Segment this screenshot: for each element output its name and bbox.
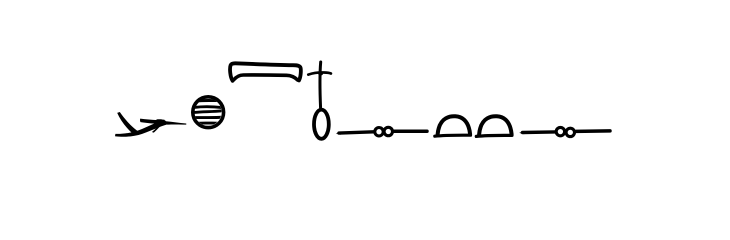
hatch lines — [194, 100, 223, 123]
bird body swoosh — [115, 120, 166, 137]
bird body blob and tail stroke — [156, 119, 187, 125]
basket rim outline — [230, 63, 301, 81]
wire 1 with double loop — [336, 127, 427, 136]
wire 2 with double loop — [519, 127, 610, 136]
wire 2 left segment — [523, 130, 556, 134]
circle outline — [193, 97, 224, 128]
wire 1 left segment — [339, 132, 374, 133]
dome 2 arch — [479, 116, 512, 134]
wire 2 right segment — [576, 129, 610, 133]
nefer crossbar — [308, 72, 331, 74]
nefer glyph (cross-topped oval) — [308, 62, 331, 139]
wire 1 loop a — [375, 128, 383, 136]
nefer oval — [314, 110, 329, 139]
bird leg stroke — [152, 124, 162, 133]
wire 1 right segment — [394, 129, 427, 133]
basket glyph — [230, 63, 301, 81]
basket bottom line — [234, 75, 298, 80]
hatched circle glyph — [193, 97, 224, 128]
bird left wing stroke — [117, 112, 137, 134]
dome 2 base — [476, 135, 512, 136]
nefer vertical stem — [319, 62, 323, 109]
wire 1 loop b — [384, 127, 392, 135]
dome 1 base — [435, 135, 471, 136]
dome glyph 2 — [476, 116, 512, 136]
wire 2 loop a — [556, 127, 564, 135]
dome 1 arch — [438, 116, 471, 134]
wire 2 loop b — [566, 128, 574, 136]
dome glyph 1 — [435, 116, 471, 136]
bird glyph (flying-bird swoosh) — [115, 112, 186, 137]
bird head bar — [140, 119, 158, 124]
